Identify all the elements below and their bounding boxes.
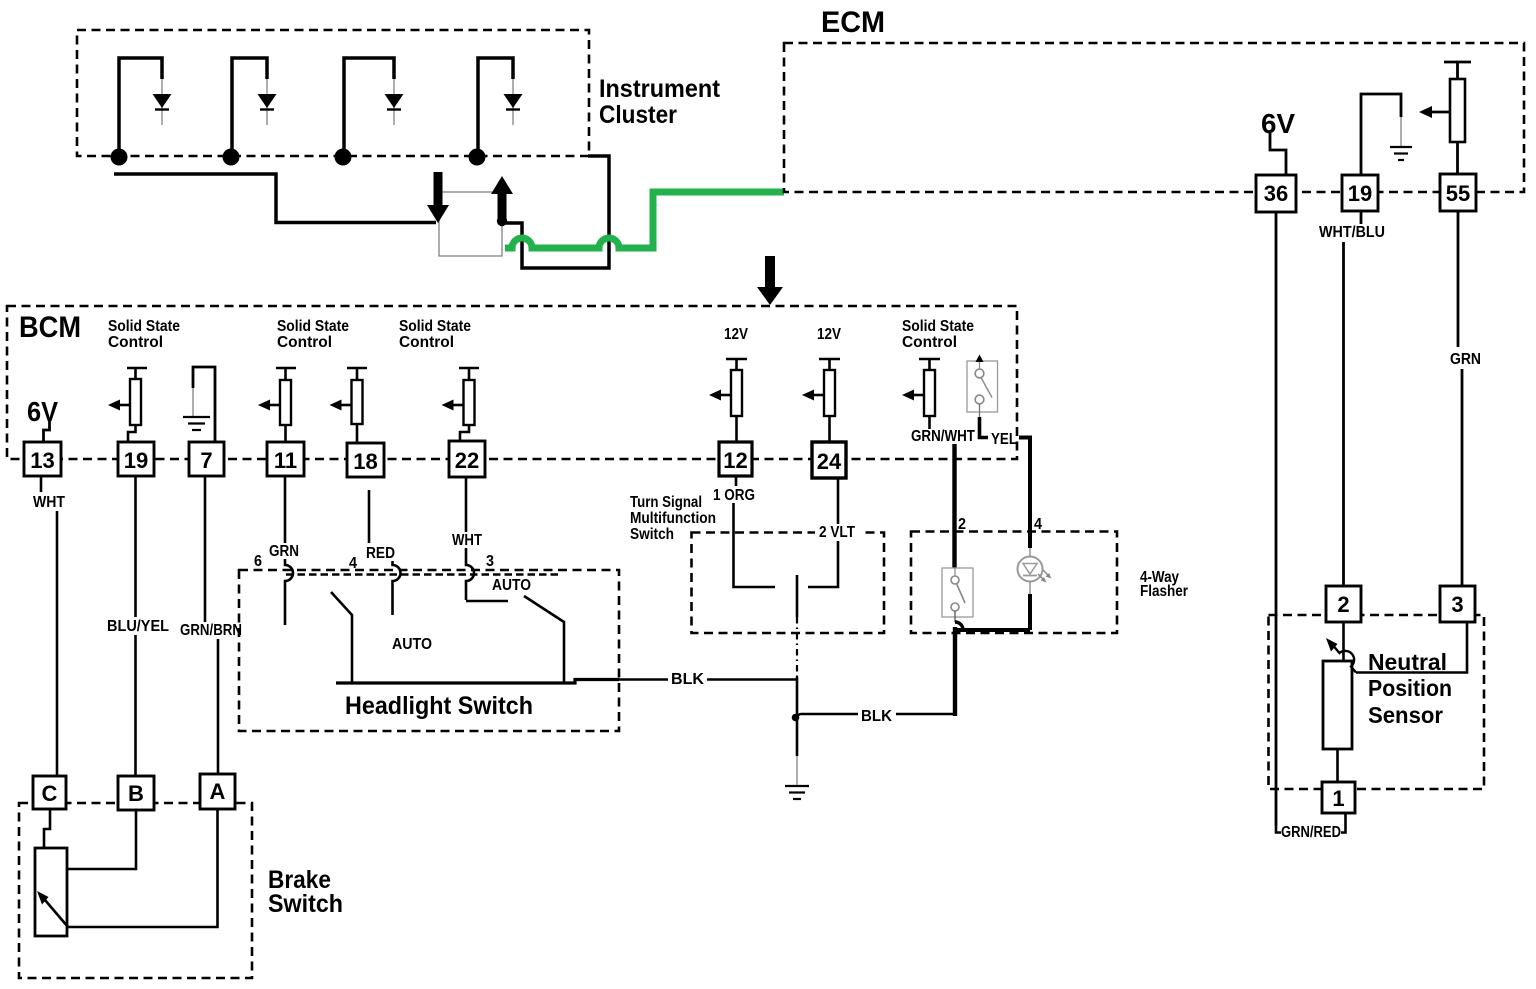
junction dot BLK xyxy=(792,714,800,722)
wire YEL down to flasher pin 4 xyxy=(1019,438,1030,549)
flasher switch to BLK junction xyxy=(953,627,957,716)
svg-text:3: 3 xyxy=(1451,592,1463,617)
wire cluster bus to driver box xyxy=(114,174,436,223)
svg-text:19: 19 xyxy=(124,448,148,473)
indicator lamp D1 (LED) xyxy=(153,79,172,125)
wire 6V to pin 36 xyxy=(1270,133,1286,175)
svg-text:AUTO: AUTO xyxy=(492,577,531,594)
svg-text:Position: Position xyxy=(1368,675,1452,701)
svg-text:BCM: BCM xyxy=(19,311,81,344)
svg-text:GRN/BRN: GRN/BRN xyxy=(180,622,242,639)
green data wire to ECM xyxy=(505,192,784,248)
resistor R19 (solid state control) xyxy=(108,368,147,442)
svg-text:GRN: GRN xyxy=(269,543,299,560)
svg-text:6V: 6V xyxy=(1261,108,1295,139)
turn signal switch pole xyxy=(796,575,799,617)
wire loop from driver to cluster corner xyxy=(502,156,609,268)
wire B to potentiometer xyxy=(67,810,136,869)
neutral position sensor box xyxy=(1269,615,1485,789)
wire BCM pin 19 BLU/YEL down xyxy=(134,476,137,617)
brake pin C xyxy=(33,776,66,809)
svg-text:1: 1 xyxy=(1332,786,1344,811)
signal flow arrow up xyxy=(491,176,513,219)
NPS potentiometer xyxy=(1323,661,1352,749)
wire RED into headlight switch with hop xyxy=(393,561,401,615)
svg-text:Solid State: Solid State xyxy=(902,318,974,335)
driver box (thin) xyxy=(439,192,502,256)
svg-text:6: 6 xyxy=(254,553,262,570)
svg-text:24: 24 xyxy=(817,449,842,474)
headlight switch right blade xyxy=(524,596,564,683)
svg-text:Control: Control xyxy=(108,334,163,351)
svg-text:Instrument: Instrument xyxy=(599,75,721,103)
brake wiper arrow xyxy=(37,891,68,927)
wire pin 3 to wiper xyxy=(1356,622,1467,673)
svg-text:Cluster: Cluster xyxy=(599,101,677,129)
indicator lamp D2 (LED) xyxy=(258,79,277,125)
BCM pin 24 xyxy=(812,442,846,478)
svg-text:12V: 12V xyxy=(724,326,748,343)
headlight switch box xyxy=(239,570,619,731)
ECM pin 36 xyxy=(1256,175,1296,212)
indicator lamp D3 (LED) xyxy=(385,79,404,125)
flasher lamp wires xyxy=(1029,548,1031,630)
wire YEL from switch xyxy=(979,404,981,418)
wire BLK from headlight switch xyxy=(619,678,668,681)
svg-text:Headlight Switch: Headlight Switch xyxy=(345,692,533,720)
svg-text:22: 22 xyxy=(455,448,479,473)
wire BCM pin 7 GRN/BRN down xyxy=(204,476,207,622)
svg-text:RED: RED xyxy=(366,545,395,562)
resistor R24 (solid state control) xyxy=(802,359,840,442)
svg-text:2: 2 xyxy=(1337,592,1349,617)
wire BCM pin 24 down xyxy=(837,478,840,524)
svg-text:YEL: YEL xyxy=(991,431,1017,448)
wire WHT to brake switch C xyxy=(56,511,59,776)
svg-text:ECM: ECM xyxy=(821,6,885,39)
svg-text:36: 36 xyxy=(1264,181,1288,206)
wire potentiometer to pin 1 xyxy=(1336,749,1339,782)
svg-text:2 VLT: 2 VLT xyxy=(819,524,855,541)
wire GRN/BRN to brake switch A xyxy=(217,639,220,774)
svg-text:12: 12 xyxy=(723,448,747,473)
svg-text:Flasher: Flasher xyxy=(1140,583,1188,600)
indicator lamp D4 (LED) xyxy=(504,79,523,125)
BCM pin 18 xyxy=(347,443,384,477)
svg-text:Control: Control xyxy=(277,334,332,351)
ground above pin 7 xyxy=(183,367,215,442)
label GRN/RED xyxy=(1281,823,1341,841)
4-way flasher box xyxy=(911,532,1117,634)
ECM pin 55 xyxy=(1440,174,1476,211)
wire ECM pin 36 down to neutral position sensor pin 1 xyxy=(1275,212,1278,826)
headlight switch common bus xyxy=(336,680,619,684)
junction dot at arrow xyxy=(497,216,507,226)
svg-text:55: 55 xyxy=(1446,181,1470,206)
resistor R12 (solid state control) xyxy=(709,359,747,442)
svg-text:BLK: BLK xyxy=(861,708,892,725)
junction dot node 1 xyxy=(111,149,128,166)
solid state arrow (ECM) xyxy=(1419,106,1450,118)
BCM pin 7 xyxy=(189,442,224,476)
resistor R22 (solid state control) xyxy=(442,368,480,441)
resistor (ECM solid state control) xyxy=(1444,62,1471,175)
wire BCM pin 22 WHT down xyxy=(465,477,468,532)
wire BLK to pole xyxy=(707,678,797,681)
svg-text:Solid State: Solid State xyxy=(277,318,349,335)
wire BCM pin 12 down xyxy=(735,476,738,486)
wire 6V to pin 13 xyxy=(44,419,50,442)
svg-text:13: 13 xyxy=(30,448,54,473)
wire GRN/RED from ECM 36 to pin 1 xyxy=(1276,813,1346,833)
ECM box xyxy=(784,43,1524,192)
wire C to potentiometer xyxy=(44,809,50,847)
BCM pin 11 xyxy=(267,442,304,476)
indicator lamp D3 anode wire xyxy=(344,58,394,157)
indicator lamp D4 anode wire xyxy=(478,58,513,157)
svg-text:WHT: WHT xyxy=(452,532,482,549)
wire GRN/WHT down to flasher pin 2 xyxy=(952,444,956,568)
svg-text:Sensor: Sensor xyxy=(1368,702,1443,728)
wire BLU/YEL to brake switch B xyxy=(134,635,137,776)
svg-text:Multifunction: Multifunction xyxy=(630,510,716,527)
wire BCM pin 11 GRN down xyxy=(284,476,287,543)
svg-text:GRN: GRN xyxy=(1450,351,1481,368)
svg-text:B: B xyxy=(128,781,144,806)
NPS pin 3 xyxy=(1440,586,1475,622)
ECM pin 19 xyxy=(1342,175,1378,211)
BCM pin 13 xyxy=(24,442,61,476)
resistor for GRN/WHT output (solid state control) xyxy=(902,359,940,429)
headlight switch gang coupling dashed line xyxy=(286,573,558,575)
resistor R11 (solid state control) xyxy=(258,368,296,442)
BCM pin 19 xyxy=(118,442,154,476)
turn signal multifunction switch box xyxy=(692,533,885,634)
wire pin 2 to potentiometer xyxy=(1342,622,1345,661)
svg-text:18: 18 xyxy=(353,449,377,474)
BCM pin 22 xyxy=(449,441,485,477)
svg-text:C: C xyxy=(42,781,58,806)
svg-text:AUTO: AUTO xyxy=(392,636,432,653)
svg-text:Control: Control xyxy=(902,334,957,351)
svg-text:3: 3 xyxy=(486,553,494,570)
svg-text:Turn Signal: Turn Signal xyxy=(630,494,702,511)
wire BCM pin 13 WHT down xyxy=(40,476,43,492)
svg-text:Solid State: Solid State xyxy=(108,318,180,335)
wire BLK continues to flasher common xyxy=(896,713,955,716)
svg-text:GRN/WHT: GRN/WHT xyxy=(911,428,975,445)
wire to turn signal left contact xyxy=(734,503,776,587)
svg-text:11: 11 xyxy=(274,448,297,473)
brake pin A xyxy=(200,774,235,809)
svg-text:12V: 12V xyxy=(817,326,841,343)
NPS pin 2 xyxy=(1326,586,1361,622)
BCM box xyxy=(7,306,1017,459)
flasher common bottom wire xyxy=(957,628,1030,632)
indicator lamp D2 anode wire xyxy=(232,58,267,157)
instrument cluster box xyxy=(77,30,589,156)
wire BCM pin 18 RED down xyxy=(368,490,371,543)
wire to turn signal right contact xyxy=(808,541,838,587)
arrow into BCM xyxy=(757,256,783,305)
brake pin B xyxy=(118,776,154,810)
wire pole to ground xyxy=(796,716,799,756)
svg-text:6V: 6V xyxy=(27,396,58,427)
svg-text:BLK: BLK xyxy=(671,671,704,688)
svg-text:WHT/BLU: WHT/BLU xyxy=(1319,224,1385,241)
svg-text:Neutral: Neutral xyxy=(1368,649,1447,675)
label 2 VLT xyxy=(815,524,861,541)
wire BLK to flasher xyxy=(797,714,858,718)
svg-text:Switch: Switch xyxy=(268,890,343,918)
svg-text:Control: Control xyxy=(399,334,454,351)
BCM pin 12 xyxy=(719,442,752,476)
svg-text:BLU/YEL: BLU/YEL xyxy=(107,618,169,635)
junction dot node 2 xyxy=(223,149,240,166)
svg-text:GRN/RED: GRN/RED xyxy=(1281,824,1341,841)
brake switch box xyxy=(19,803,252,978)
flasher indicator lamp xyxy=(1018,557,1052,583)
brake potentiometer xyxy=(35,848,67,936)
NPS wiper arrow xyxy=(1326,638,1356,673)
headlight switch left blade xyxy=(331,592,352,683)
flasher common hook xyxy=(955,622,963,630)
svg-text:19: 19 xyxy=(1348,181,1372,206)
indicator lamp D1 anode wire xyxy=(119,58,162,157)
wire pin 19 to ground (ECM) xyxy=(1361,94,1401,175)
signal flow arrow down xyxy=(427,172,449,223)
wire ECM pin 19 WHT/BLU down xyxy=(1360,212,1363,224)
ground (ECM) xyxy=(1390,147,1412,160)
resistor R18 (solid state control) xyxy=(330,368,368,442)
wire WHT into headlight switch with hop xyxy=(466,548,508,601)
svg-text:WHT: WHT xyxy=(33,494,65,511)
junction dot node 4 xyxy=(469,149,486,166)
svg-text:Solid State: Solid State xyxy=(399,318,471,335)
flasher switch xyxy=(942,568,973,622)
svg-text:7: 7 xyxy=(200,448,212,473)
svg-text:Switch: Switch xyxy=(630,526,674,543)
wire GRN into headlight switch with hop xyxy=(285,559,293,625)
wire ECM pin 55 GRN down xyxy=(1457,212,1460,347)
svg-text:A: A xyxy=(210,779,226,804)
output switch (BCM) xyxy=(967,355,998,413)
wire A to wiper xyxy=(68,809,218,927)
svg-text:1 ORG: 1 ORG xyxy=(713,487,755,504)
junction dot node 3 xyxy=(335,149,352,166)
ground (turn signal) xyxy=(785,786,809,799)
NPS pin 1 xyxy=(1322,782,1355,813)
